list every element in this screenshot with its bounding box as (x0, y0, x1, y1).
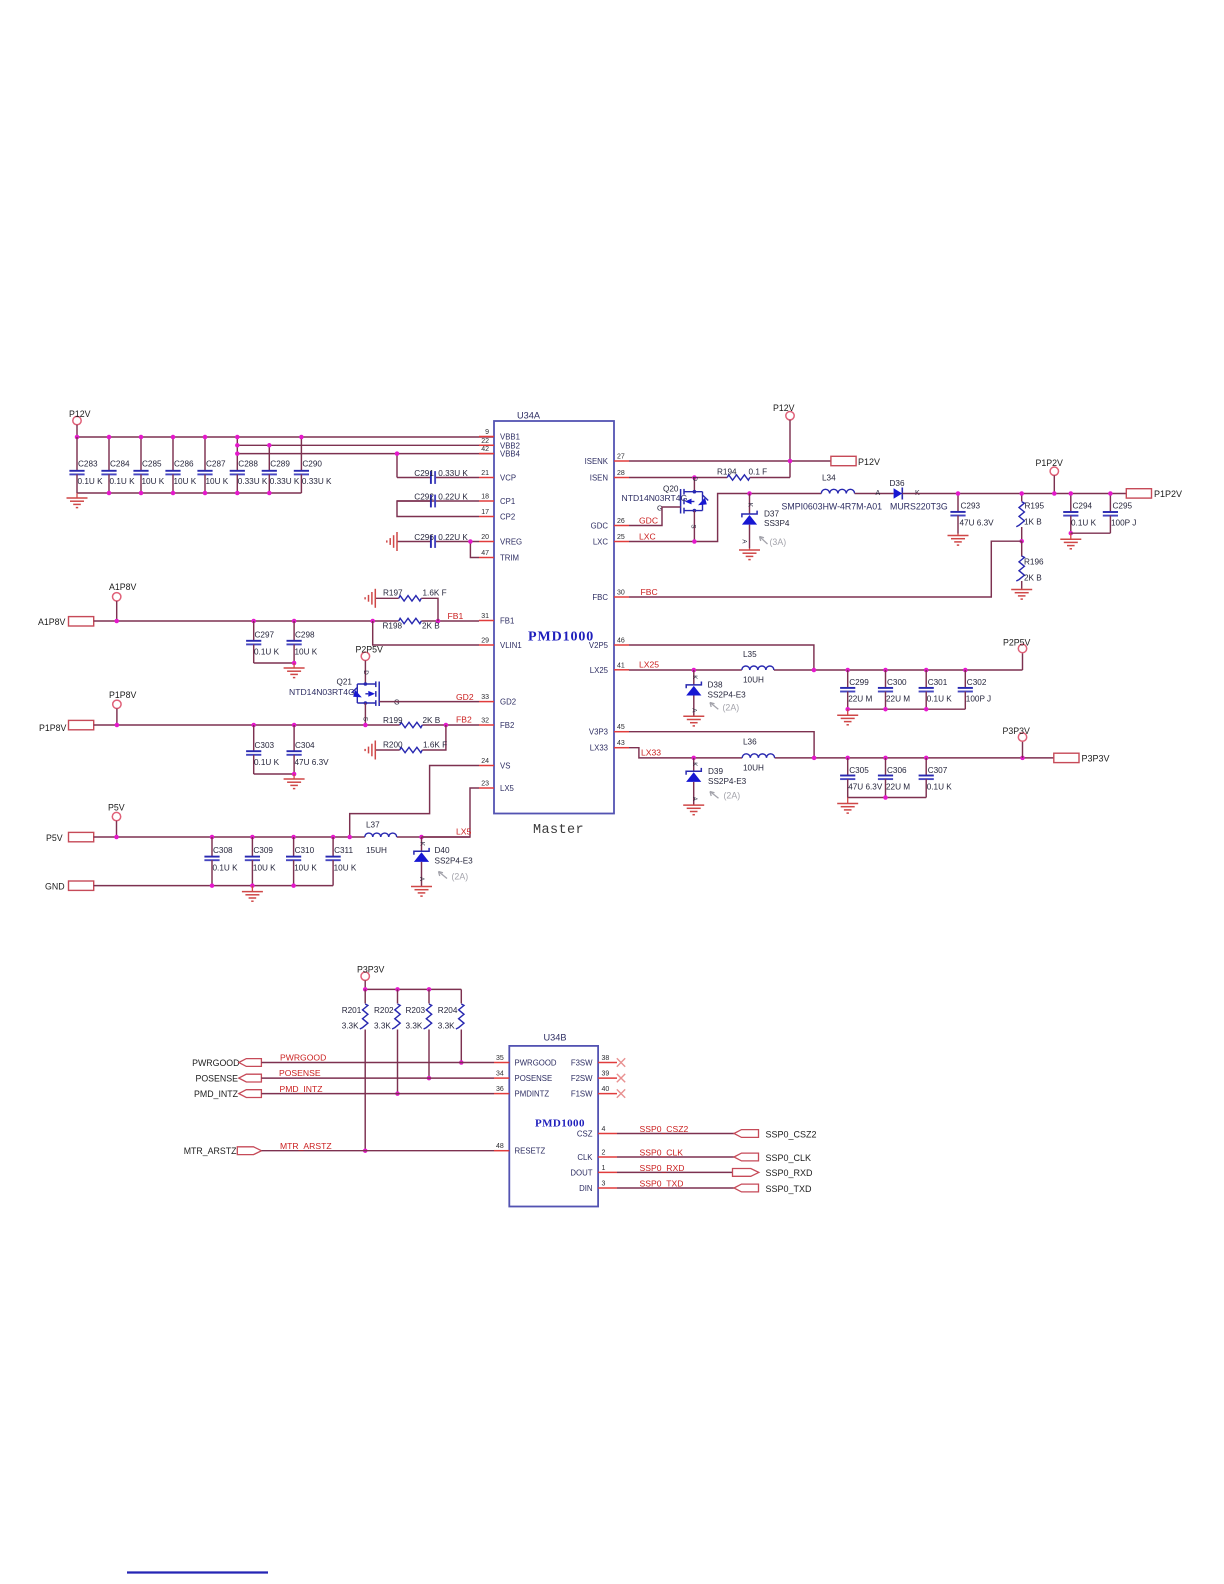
svg-text:SS3P4: SS3P4 (764, 519, 790, 528)
svg-text:VCP: VCP (500, 474, 516, 483)
ground at C298 (284, 663, 305, 678)
svg-text:SSP0_CLK: SSP0_CLK (766, 1153, 812, 1163)
svg-text:(2A): (2A) (723, 703, 740, 713)
svg-text:VBB4: VBB4 (500, 450, 521, 459)
svg-text:VLIN1: VLIN1 (500, 641, 522, 650)
svg-text:47U 6.3V: 47U 6.3V (848, 782, 883, 791)
capacitor C311 (326, 837, 357, 886)
svg-text:C293: C293 (961, 502, 981, 511)
svg-text:A: A (876, 490, 881, 497)
svg-text:FB2: FB2 (456, 715, 472, 725)
node bus junctions (107, 435, 304, 496)
svg-text:P2P5V: P2P5V (1003, 638, 1031, 648)
capacitor C285 (133, 437, 164, 493)
svg-text:3.3K: 3.3K (342, 1022, 359, 1031)
svg-text:P12V: P12V (69, 409, 91, 419)
wire C297-C298 ground link (254, 661, 297, 666)
svg-text:10U K: 10U K (206, 477, 229, 486)
svg-text:GD2: GD2 (456, 692, 474, 702)
wire VLIN1 (373, 621, 479, 645)
svg-text:POSENSE: POSENSE (515, 1074, 553, 1083)
svg-text:C289: C289 (270, 460, 290, 469)
wire LX5 (422, 788, 480, 837)
wire VREG-TRIM tie (468, 539, 479, 557)
pin stubs U34A left (479, 429, 494, 788)
wire SSP0_CLK (617, 1156, 734, 1158)
port P5V (46, 832, 94, 843)
net label FB1 (448, 611, 464, 621)
svg-text:R194: R194 (717, 468, 737, 477)
transistor Q21 NTD14N03RT4G (289, 670, 400, 725)
net label FB2 (456, 715, 472, 725)
svg-text:22U M: 22U M (886, 695, 910, 704)
ground at C305 (837, 798, 858, 814)
wire SSP0_RXD (617, 1171, 733, 1173)
svg-text:SSP0_CSZ2: SSP0_CSZ2 (766, 1129, 817, 1139)
port PMD_INTZ (194, 1089, 261, 1099)
capacitor C291 (395, 451, 479, 484)
port SSP0_CLK (734, 1153, 811, 1163)
svg-text:R203: R203 (406, 1006, 426, 1015)
capacitor C298 (287, 621, 318, 663)
svg-text:LX5: LX5 (456, 827, 472, 837)
svg-text:P3P3V: P3P3V (1003, 726, 1031, 736)
svg-text:LX33: LX33 (590, 744, 608, 753)
wire V3P3 (629, 732, 814, 758)
svg-text:PMD1000: PMD1000 (528, 630, 594, 645)
port MTR_ARSTZ (184, 1146, 262, 1156)
svg-text:10U K: 10U K (174, 477, 197, 486)
svg-text:SSP0_RXD: SSP0_RXD (766, 1168, 814, 1178)
ground at C299 (837, 709, 858, 725)
svg-text:C303: C303 (255, 741, 275, 750)
capacitor C297 (246, 621, 279, 663)
svg-text:F1SW: F1SW (571, 1090, 593, 1099)
svg-text:LXC: LXC (593, 538, 609, 547)
ground (67, 493, 88, 508)
wire PMD_INTZ (261, 1093, 494, 1095)
svg-text:D40: D40 (435, 846, 450, 855)
capacitor C309 (245, 837, 276, 886)
svg-text:C296: C296 (414, 533, 434, 542)
svg-text:1: 1 (602, 1165, 606, 1172)
svg-text:C308: C308 (213, 846, 233, 855)
ground at D37 (739, 548, 760, 560)
svg-text:U34B: U34B (544, 1033, 567, 1043)
svg-text:CSZ: CSZ (577, 1130, 593, 1139)
ground at C304 (284, 774, 305, 789)
svg-text:C294: C294 (1073, 502, 1093, 511)
svg-text:A: A (741, 539, 748, 544)
ground at GND rail (242, 886, 263, 902)
svg-text:C309: C309 (253, 846, 273, 855)
svg-text:29: 29 (481, 638, 489, 645)
wire FBC feedback (629, 541, 1022, 597)
capacitor C299 (840, 670, 872, 709)
power terminal P5V (108, 803, 125, 838)
svg-text:C301: C301 (928, 678, 948, 687)
port P1P2V (1126, 489, 1182, 499)
resistor R196 (1016, 541, 1044, 588)
capacitor C290 (294, 437, 332, 493)
current note (2A) at D39 (710, 791, 740, 801)
svg-text:3: 3 (602, 1181, 606, 1188)
svg-text:PMD_INTZ: PMD_INTZ (194, 1089, 239, 1099)
svg-text:36: 36 (496, 1086, 504, 1093)
resistor R195 (1016, 491, 1044, 543)
capacitor C301 (919, 670, 953, 709)
net label POSENSE (279, 1068, 321, 1078)
svg-text:25: 25 (617, 534, 625, 541)
svg-text:NTD14N03RT4G: NTD14N03RT4G (622, 493, 688, 503)
no-connect F3SW (617, 1058, 625, 1066)
svg-text:C299: C299 (849, 678, 869, 687)
svg-text:0.1U K: 0.1U K (78, 477, 104, 486)
svg-text:MTR_ARSTZ: MTR_ARSTZ (184, 1146, 237, 1156)
resistor R203 (406, 989, 432, 1080)
svg-text:S: S (690, 524, 697, 528)
svg-text:DOUT: DOUT (570, 1168, 592, 1177)
power terminal P3P3V (pullups) (357, 965, 385, 990)
label Master (533, 823, 584, 838)
svg-text:R201: R201 (342, 1006, 362, 1015)
svg-text:10U K: 10U K (334, 864, 357, 873)
svg-text:S: S (362, 717, 369, 721)
pin stubs U34B left (494, 1055, 509, 1151)
capacitor C305 (840, 758, 883, 798)
capacitor C300 (878, 670, 910, 709)
svg-text:SS2P4-E3: SS2P4-E3 (708, 777, 747, 786)
current note (2A) at D40 (439, 872, 469, 882)
svg-text:9: 9 (485, 429, 489, 436)
svg-text:P2P5V: P2P5V (356, 645, 384, 655)
ground at D40 (411, 886, 432, 896)
capacitor C296 (397, 533, 479, 548)
svg-text:0.1U K: 0.1U K (927, 695, 953, 704)
svg-text:100P J: 100P J (1111, 519, 1136, 528)
title block rule (127, 1571, 268, 1573)
net label PMD_INTZ (280, 1084, 323, 1094)
svg-text:C305: C305 (849, 766, 869, 775)
ground at D39 (683, 805, 704, 815)
wire LX25 cap ground link (845, 707, 965, 712)
wire pullup bus (363, 987, 461, 992)
net label FBC (641, 587, 658, 597)
svg-text:C286: C286 (174, 460, 194, 469)
ground at R196 (1011, 589, 1032, 600)
svg-text:P5V: P5V (108, 803, 125, 813)
wire ISEN node (629, 475, 790, 480)
svg-text:38: 38 (602, 1055, 610, 1062)
svg-text:0.33U K: 0.33U K (238, 477, 268, 486)
inductor L35 (742, 650, 774, 685)
svg-text:2K B: 2K B (1024, 574, 1042, 583)
capacitor C283 (69, 437, 103, 493)
resistor R198 (383, 618, 441, 630)
svg-text:ISEN: ISEN (590, 474, 608, 483)
svg-text:C292: C292 (414, 493, 434, 502)
port SSP0_CSZ2 (734, 1129, 817, 1139)
svg-text:GND: GND (45, 881, 65, 891)
svg-text:22U M: 22U M (886, 782, 910, 791)
capacitor C288 (230, 454, 268, 493)
svg-text:RESETZ: RESETZ (515, 1147, 546, 1156)
wire VBB2 bus (237, 444, 494, 446)
svg-text:2K B: 2K B (423, 716, 441, 725)
wire VBB bus tie at C288 (236, 437, 238, 454)
svg-text:VBB1: VBB1 (500, 433, 520, 442)
power terminal P1P8V (109, 690, 137, 725)
svg-text:R202: R202 (374, 1006, 394, 1015)
svg-text:43: 43 (617, 740, 625, 747)
svg-text:Q21: Q21 (337, 678, 353, 687)
power terminal P12V (top right) (773, 403, 795, 478)
diode D38 SS2P4-E3 (686, 670, 746, 716)
port PWRGOOD (192, 1058, 261, 1068)
current note (3A) (760, 537, 787, 548)
capacitor C303 (246, 725, 279, 774)
net label MTR_ARSTZ (280, 1141, 332, 1151)
wire VBB4 bus (237, 453, 494, 455)
capacitor C286 (165, 437, 196, 493)
svg-text:C283: C283 (78, 460, 98, 469)
svg-text:D39: D39 (708, 767, 723, 776)
svg-text:SSP0_TXD: SSP0_TXD (766, 1184, 813, 1194)
svg-text:47U 6.3V: 47U 6.3V (960, 519, 995, 528)
svg-text:MURS220T3G: MURS220T3G (890, 502, 948, 512)
capacitor C304 (287, 725, 330, 774)
svg-text:C306: C306 (887, 766, 907, 775)
svg-text:C287: C287 (206, 460, 226, 469)
svg-text:SS2P4-E3: SS2P4-E3 (435, 856, 474, 865)
svg-text:0.1U K: 0.1U K (254, 758, 280, 767)
svg-text:R197: R197 (383, 589, 403, 598)
svg-text:P1P2V: P1P2V (1154, 489, 1182, 499)
svg-text:PMD1000: PMD1000 (535, 1118, 585, 1130)
current note (2A) at D38 (710, 703, 739, 713)
svg-text:0.22U K: 0.22U K (438, 493, 468, 502)
resistor R194 (717, 468, 767, 481)
svg-text:POSENSE: POSENSE (195, 1074, 238, 1084)
svg-text:DIN: DIN (579, 1184, 592, 1193)
svg-text:1.6K F: 1.6K F (423, 741, 447, 750)
svg-text:C285: C285 (142, 460, 162, 469)
svg-text:P5V: P5V (46, 833, 63, 843)
svg-text:18: 18 (481, 494, 489, 501)
svg-text:C302: C302 (967, 678, 987, 687)
wire L34 to D36 (855, 493, 894, 495)
wire C303-C304 ground link (254, 772, 297, 777)
power terminal P12V (input) (69, 409, 91, 437)
svg-text:SSP0_CLK: SSP0_CLK (640, 1148, 684, 1158)
wire LX25 rail (629, 668, 1023, 673)
svg-text:SS2P4-E3: SS2P4-E3 (708, 690, 747, 699)
port GND (45, 881, 94, 891)
svg-text:U34A: U34A (517, 410, 541, 420)
svg-text:15UH: 15UH (366, 846, 387, 855)
svg-text:40: 40 (602, 1086, 610, 1093)
pin stubs U34A right (614, 454, 629, 748)
ground (rotated) at R200 (365, 741, 375, 760)
wire VS to P5V rail (350, 766, 479, 838)
wire P5V rail (94, 835, 470, 840)
svg-text:0.33U K: 0.33U K (302, 477, 332, 486)
ground at C293 (948, 534, 969, 546)
capacitor C293 (950, 491, 994, 533)
svg-text:R198: R198 (383, 622, 403, 631)
power terminal P1P2V (1036, 458, 1064, 496)
svg-text:SSP0_CSZ2: SSP0_CSZ2 (640, 1124, 689, 1134)
svg-text:FBC: FBC (592, 593, 608, 602)
svg-text:10U K: 10U K (142, 477, 165, 486)
svg-text:30: 30 (617, 590, 625, 597)
power terminal P3P3V (output) (1003, 726, 1031, 758)
net label GD2 (456, 692, 474, 702)
capacitor C310 (286, 837, 317, 886)
wire D36 to P1P2V rail (902, 493, 1126, 495)
svg-text:A1P8V: A1P8V (109, 582, 137, 592)
svg-text:SMPI0603HW-4R7M-A01: SMPI0603HW-4R7M-A01 (782, 502, 883, 512)
op-amp U34B PMD1000 (IC body) (509, 1033, 598, 1207)
svg-text:R200: R200 (383, 741, 403, 750)
svg-text:GDC: GDC (591, 522, 609, 531)
svg-text:10U K: 10U K (295, 648, 318, 657)
inductor L36 (742, 738, 774, 773)
svg-text:CP1: CP1 (500, 497, 515, 506)
svg-text:100P J: 100P J (966, 695, 991, 704)
ground (rotated) at R197 (365, 589, 375, 608)
svg-text:LXC: LXC (639, 532, 656, 542)
capacitor C287 (197, 437, 228, 493)
svg-text:FB1: FB1 (448, 611, 464, 621)
svg-text:0.1U K: 0.1U K (927, 782, 953, 791)
svg-text:31: 31 (481, 613, 489, 620)
resistor R202 (374, 989, 400, 1095)
svg-text:P12V: P12V (773, 403, 795, 413)
svg-text:48: 48 (496, 1143, 504, 1150)
port P12V (right) (831, 456, 880, 467)
svg-text:32: 32 (481, 718, 489, 725)
capacitor C289 (262, 445, 300, 493)
svg-text:3.3K: 3.3K (438, 1022, 455, 1031)
ground at D38 (683, 716, 704, 726)
svg-text:CLK: CLK (577, 1153, 593, 1162)
transistor Q20 NTD14N03RT4G (622, 477, 709, 542)
power terminal A1P8V (109, 582, 137, 621)
svg-text:CP2: CP2 (500, 513, 515, 522)
svg-text:C284: C284 (110, 460, 130, 469)
svg-text:TRIM: TRIM (500, 554, 519, 563)
svg-text:GDC: GDC (639, 516, 658, 526)
capacitor C284 (101, 437, 135, 493)
svg-text:C307: C307 (928, 766, 948, 775)
svg-text:C288: C288 (238, 460, 258, 469)
wire POSENSE (261, 1077, 494, 1079)
wire VBB1 bus (77, 436, 494, 438)
svg-text:22U M: 22U M (848, 695, 872, 704)
port SSP0_TXD (734, 1184, 812, 1194)
svg-text:PWRGOOD: PWRGOOD (280, 1053, 326, 1063)
svg-text:F3SW: F3SW (571, 1059, 593, 1068)
svg-text:0.1U K: 0.1U K (213, 864, 239, 873)
svg-text:PWRGOOD: PWRGOOD (515, 1059, 557, 1068)
wire P1P8V / FB2 rail (94, 723, 479, 728)
net label SSP0_CLK (640, 1148, 684, 1158)
svg-text:R195: R195 (1025, 502, 1045, 511)
svg-text:MTR_ARSTZ: MTR_ARSTZ (280, 1141, 332, 1151)
resistor R200 (375, 725, 447, 753)
svg-text:P1P8V: P1P8V (39, 723, 67, 733)
svg-text:SSP0_TXD: SSP0_TXD (640, 1179, 684, 1189)
wire V2P5 (629, 645, 814, 670)
svg-text:D: D (362, 670, 369, 675)
wire LXC switch node (629, 494, 750, 544)
svg-text:LX25: LX25 (590, 666, 609, 675)
svg-text:R199: R199 (383, 716, 403, 725)
svg-text:V3P3: V3P3 (589, 728, 608, 737)
svg-text:C304: C304 (295, 741, 315, 750)
capacitor C295 (1071, 491, 1137, 533)
capacitor C302 (958, 670, 991, 709)
svg-text:P1P8V: P1P8V (109, 690, 137, 700)
svg-text:ISENK: ISENK (585, 457, 609, 466)
svg-text:FB2: FB2 (500, 721, 514, 730)
net label LX25 (639, 660, 659, 670)
svg-text:23: 23 (481, 781, 489, 788)
port SSP0_RXD (733, 1168, 814, 1178)
svg-text:L36: L36 (743, 738, 757, 747)
svg-text:POSENSE: POSENSE (279, 1068, 321, 1078)
svg-text:V2P5: V2P5 (589, 641, 609, 650)
svg-text:C297: C297 (255, 631, 275, 640)
svg-text:0.33U K: 0.33U K (270, 477, 300, 486)
node P12V-bus junction (75, 435, 80, 440)
power terminal P2P5V (output) (1003, 638, 1031, 671)
net label LXC (639, 532, 656, 542)
svg-text:22: 22 (481, 438, 489, 445)
no-connect F1SW (617, 1089, 625, 1097)
svg-text:0.1U K: 0.1U K (254, 648, 280, 657)
wire SSP0_TXD (617, 1187, 734, 1189)
resistor R204 (438, 989, 464, 1064)
net label LX33 (641, 748, 661, 758)
svg-text:0.1 F: 0.1 F (749, 468, 768, 477)
net label SSP0_RXD (640, 1163, 685, 1173)
svg-text:1.6K F: 1.6K F (423, 589, 447, 598)
svg-text:47: 47 (481, 550, 489, 557)
capacitor C292 (397, 493, 479, 517)
svg-text:P3P3V: P3P3V (357, 965, 385, 975)
svg-text:LX5: LX5 (500, 784, 515, 793)
svg-text:35: 35 (496, 1055, 504, 1062)
wire A1P8V / FB1 rail (94, 619, 479, 624)
svg-text:C300: C300 (887, 678, 907, 687)
net label LX5 (456, 827, 472, 837)
port P3P3V (1054, 753, 1110, 763)
svg-text:10UH: 10UH (743, 764, 764, 773)
svg-text:R204: R204 (438, 1006, 458, 1015)
ground at C294 (1060, 533, 1081, 549)
svg-text:47U 6.3V: 47U 6.3V (295, 758, 330, 767)
port P1P8V (39, 720, 94, 733)
svg-text:A1P8V: A1P8V (38, 617, 66, 627)
svg-text:2K B: 2K B (422, 622, 440, 631)
wire GDC to Q20 gate (629, 507, 681, 526)
capacitor C308 (204, 837, 238, 886)
wire ISENK to P12V port (629, 460, 831, 462)
diode D40 SS2P4-E3 (414, 837, 473, 886)
svg-text:D36: D36 (890, 479, 905, 488)
